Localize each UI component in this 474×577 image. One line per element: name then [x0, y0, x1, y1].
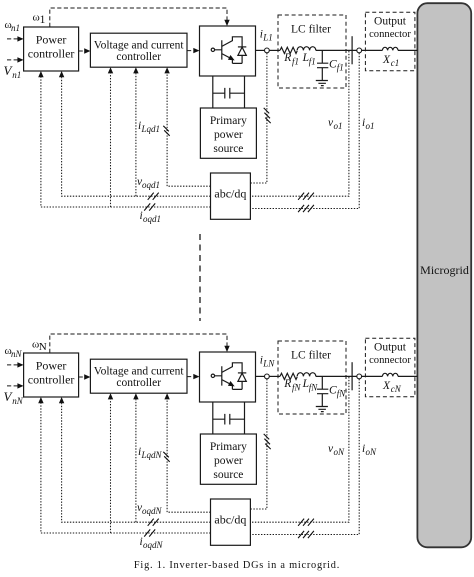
svg-text:X: X [382, 54, 391, 66]
svg-text:C: C [329, 59, 337, 71]
svg-text:fN: fN [292, 382, 302, 392]
svg-text:1: 1 [40, 14, 46, 26]
svg-text:LqdN: LqdN [141, 450, 163, 460]
svg-text:nN: nN [11, 349, 23, 359]
svg-text:f1: f1 [337, 63, 344, 73]
svg-text:oqdN: oqdN [143, 540, 164, 550]
svg-text:cN: cN [391, 384, 402, 394]
svg-text:X: X [382, 380, 391, 392]
svg-text:n1: n1 [11, 23, 20, 33]
svg-text:Microgrid: Microgrid [420, 263, 469, 277]
svg-text:fN: fN [337, 389, 347, 399]
svg-text:oqd1: oqd1 [142, 180, 160, 190]
svg-text:f1: f1 [309, 56, 316, 66]
svg-text:L1: L1 [262, 32, 273, 42]
svg-text:c1: c1 [391, 58, 400, 68]
svg-text:N: N [39, 341, 47, 353]
svg-text:n1: n1 [12, 70, 21, 80]
svg-text:o1: o1 [334, 121, 343, 131]
svg-text:R: R [283, 378, 291, 390]
svg-text:fN: fN [309, 382, 319, 392]
svg-text:o1: o1 [366, 121, 375, 131]
svg-text:LN: LN [262, 358, 275, 368]
svg-text:oqdN: oqdN [142, 506, 163, 516]
svg-text:Fig. 1. Inverter-based DGs in: Fig. 1. Inverter-based DGs in a microgri… [134, 560, 340, 571]
svg-text:nN: nN [12, 396, 24, 406]
svg-text:C: C [329, 385, 337, 397]
svg-text:oN: oN [366, 447, 378, 457]
svg-text:Lqd1: Lqd1 [141, 124, 161, 134]
svg-text:oN: oN [334, 447, 346, 457]
svg-text:oqd1: oqd1 [143, 214, 161, 224]
svg-text:f1: f1 [292, 56, 299, 66]
svg-text:R: R [283, 52, 291, 64]
